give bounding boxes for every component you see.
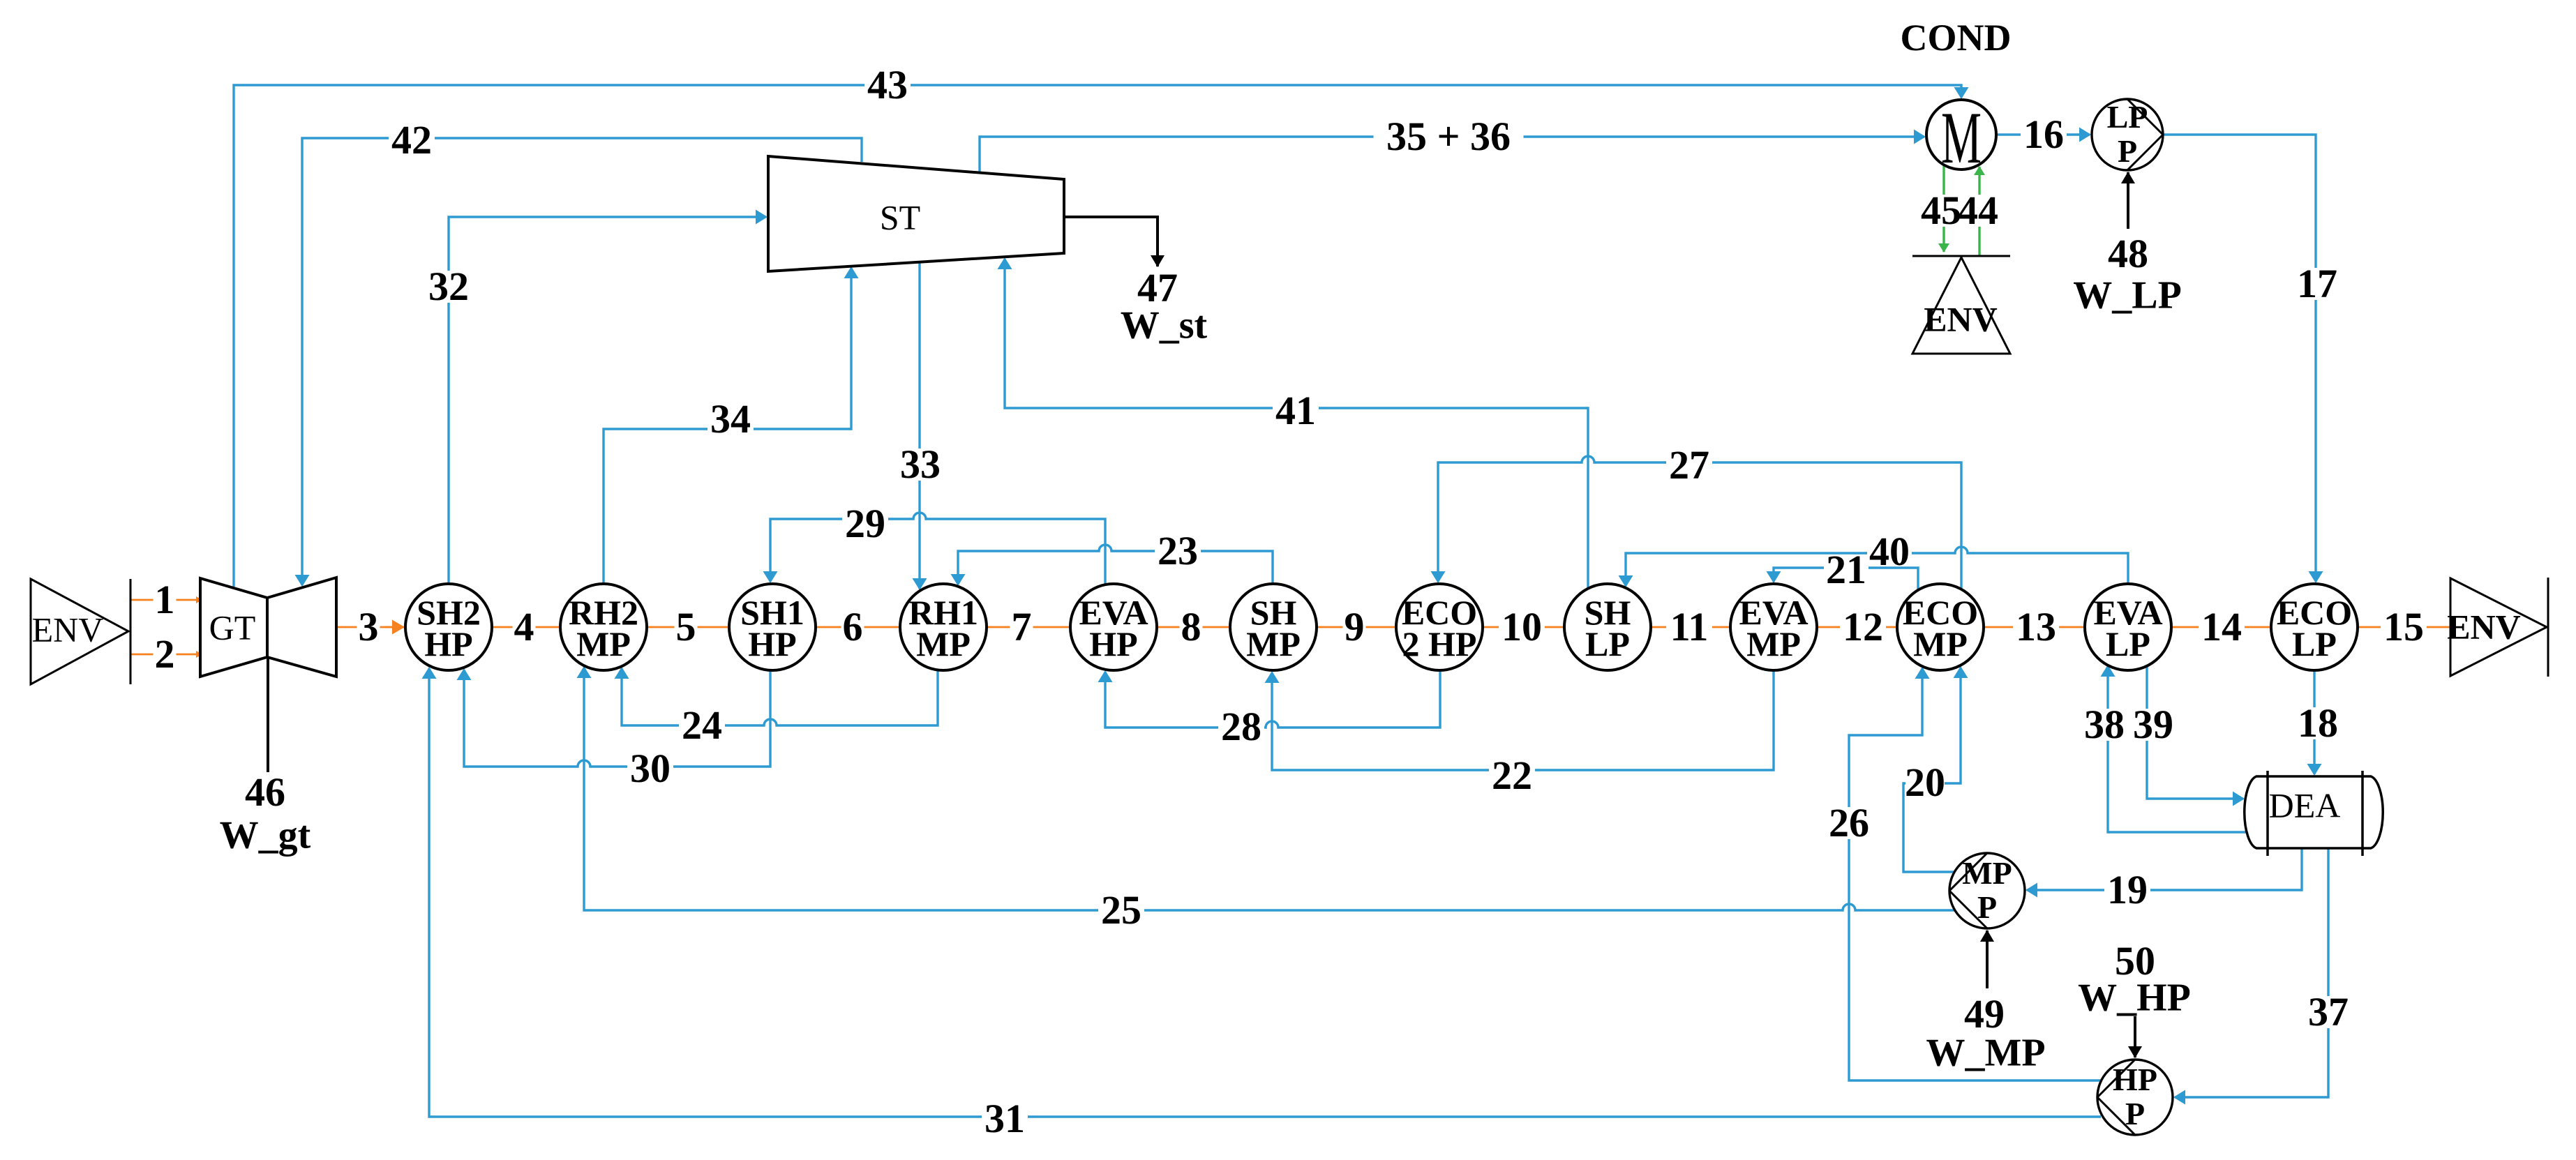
heat exchanger ECO MP — [1897, 584, 1984, 670]
ENV inlet triangle — [31, 579, 130, 684]
heat exchanger ECO LP — [2271, 584, 2358, 670]
svg-text:MP: MP — [1962, 855, 2012, 891]
svg-text:16: 16 — [2023, 112, 2064, 157]
svg-text:31: 31 — [984, 1096, 1025, 1141]
svg-text:34: 34 — [710, 396, 751, 442]
svg-text:M: M — [1941, 97, 1982, 179]
wire 41 (SH LP to ST) — [1005, 259, 1588, 589]
wire 32 (SH2 HP to ST) — [449, 217, 766, 586]
pump HP P — [2097, 1060, 2173, 1135]
svg-text:ENV: ENV — [32, 610, 104, 649]
wire 31 (HP P to SH2 HP) — [429, 668, 2101, 1117]
wire 27 (ECO MP to ECO 2 HP) — [1438, 456, 1961, 590]
svg-text:49: 49 — [1964, 991, 2005, 1037]
svg-text:W_st: W_st — [1121, 303, 1208, 347]
condenser COND — [1901, 17, 2012, 179]
svg-text:HP: HP — [2113, 1062, 2157, 1097]
svg-text:2 HP: 2 HP — [1402, 624, 1477, 663]
ENV condenser sink triangle — [1912, 256, 2010, 354]
wire 16 (COND to LP P) — [1998, 133, 2090, 135]
heat exchanger SH2 HP — [405, 584, 492, 670]
heat exchanger ECO 2 HP — [1396, 584, 1483, 670]
svg-text:1: 1 — [155, 577, 175, 622]
wire 18 (ECO LP to DEA) — [2313, 670, 2315, 774]
wire 26 (HP P to ECO MP) — [1849, 668, 2102, 1080]
svg-text:5: 5 — [676, 604, 696, 649]
svg-text:18: 18 — [2298, 700, 2338, 746]
ENV outlet triangle — [2447, 578, 2548, 677]
wire 39 (EVA LP to DEA) — [2147, 665, 2243, 799]
svg-text:LP: LP — [2106, 624, 2150, 663]
label 50 W_HP — [2078, 938, 2191, 1019]
wire 37 (DEA to HP P) — [2175, 848, 2328, 1097]
heat exchanger SH MP — [1230, 584, 1317, 670]
wire stream 3 arrow into SH2 HP — [385, 626, 403, 628]
svg-text:DEA: DEA — [2269, 786, 2341, 825]
svg-text:44: 44 — [1958, 188, 1998, 233]
label 47 W_st — [1121, 265, 1208, 347]
svg-text:45: 45 — [1921, 188, 1961, 233]
svg-text:7: 7 — [1012, 604, 1032, 649]
deaerator DEA — [2245, 771, 2383, 856]
svg-text:12: 12 — [1843, 604, 1883, 649]
heat exchanger SH LP — [1564, 584, 1651, 670]
svg-text:2: 2 — [155, 631, 175, 677]
svg-text:3: 3 — [359, 604, 379, 649]
svg-text:LP: LP — [2292, 624, 2337, 663]
svg-text:33: 33 — [900, 442, 941, 487]
svg-text:19: 19 — [2107, 867, 2148, 912]
svg-text:MP: MP — [1246, 624, 1301, 663]
svg-text:32: 32 — [428, 264, 469, 309]
wire 42 (ST to GT) — [302, 138, 862, 585]
steam turbine ST — [768, 156, 1064, 271]
wire 47 W_st (ST shaft out) — [1063, 217, 1158, 266]
svg-text:17: 17 — [2297, 261, 2337, 306]
svg-text:26: 26 — [1829, 800, 1869, 845]
svg-text:11: 11 — [1670, 604, 1709, 649]
svg-text:W_HP: W_HP — [2078, 976, 2191, 1019]
wire 22 (EVA MP to SH MP) — [1272, 670, 1774, 770]
pump LP P — [2092, 99, 2163, 170]
svg-text:25: 25 — [1101, 887, 1141, 933]
svg-text:20: 20 — [1905, 760, 1945, 805]
svg-text:23: 23 — [1158, 528, 1198, 573]
wire 19 (DEA to MP P) — [2027, 848, 2302, 890]
pump MP P — [1949, 853, 2025, 928]
wire 38 (DEA to EVA LP) — [2108, 666, 2246, 832]
wire 40 (EVA LP to SH LP) — [1626, 547, 2128, 586]
heat exchanger EVA MP — [1730, 584, 1817, 670]
svg-text:ST: ST — [880, 198, 920, 237]
wire stream 2 (ENV to GT fuel) — [131, 654, 202, 656]
svg-text:MP: MP — [1746, 624, 1801, 663]
svg-text:27: 27 — [1669, 442, 1709, 488]
label 48 W_LP — [2073, 231, 2182, 317]
svg-text:LP: LP — [2107, 99, 2148, 135]
svg-text:38: 38 — [2084, 702, 2125, 747]
svg-text:MP: MP — [576, 624, 631, 663]
svg-text:6: 6 — [843, 604, 863, 649]
svg-text:4: 4 — [514, 604, 534, 649]
wire 34 (RH2 MP to ST) — [604, 268, 851, 586]
heat exchanger RH1 MP — [900, 584, 987, 670]
svg-text:40: 40 — [1869, 529, 1910, 574]
svg-text:43: 43 — [867, 62, 908, 107]
svg-text:14: 14 — [2201, 604, 2242, 649]
wire 45 (COND to ENV) — [1942, 165, 1945, 252]
wire 17 (LP P to ECO LP) — [2163, 135, 2316, 582]
wire main flue-gas line streams 3-15 — [336, 626, 2450, 628]
svg-text:10: 10 — [1502, 604, 1542, 649]
wire 28 (ECO 2 HP to EVA HP) — [1105, 670, 1440, 728]
heat exchanger RH2 MP — [560, 584, 647, 670]
heat exchanger EVA LP — [2085, 584, 2171, 670]
wire 24 (RH1 MP to RH2 MP) — [622, 668, 938, 725]
wire 21 (ECO MP to EVA MP) — [1774, 568, 1918, 591]
svg-text:COND: COND — [1901, 17, 2012, 59]
svg-text:W_MP: W_MP — [1926, 1031, 2045, 1074]
svg-text:21: 21 — [1826, 547, 1866, 592]
wire 33 (ST to RH1 MP) — [918, 262, 920, 589]
svg-text:29: 29 — [845, 501, 885, 546]
svg-text:ENV: ENV — [1924, 300, 1998, 339]
heat exchanger SH1 HP — [729, 584, 816, 670]
svg-text:MP: MP — [916, 624, 971, 663]
svg-text:LP: LP — [1585, 624, 1630, 663]
svg-text:HP: HP — [748, 624, 796, 663]
wire 25 (MP P to RH2 MP) — [584, 668, 1954, 910]
svg-text:9: 9 — [1345, 604, 1365, 649]
gas turbine GT — [200, 578, 336, 677]
svg-text:13: 13 — [2016, 604, 2056, 649]
svg-text:24: 24 — [682, 702, 722, 748]
wire 44 (ENV to COND) — [1978, 167, 1980, 255]
heat exchanger EVA HP — [1070, 584, 1157, 670]
wire 50 W_HP into HP pump — [2134, 1016, 2136, 1057]
svg-text:HP: HP — [1089, 624, 1137, 663]
svg-text:W_gt: W_gt — [220, 813, 311, 857]
svg-text:W_LP: W_LP — [2073, 273, 2182, 317]
svg-text:37: 37 — [2308, 989, 2349, 1034]
svg-text:P: P — [2125, 1096, 2145, 1131]
svg-text:30: 30 — [630, 746, 671, 791]
svg-text:28: 28 — [1221, 704, 1261, 749]
svg-text:HP: HP — [424, 624, 472, 663]
svg-text:ENV: ENV — [2447, 608, 2521, 647]
wire 43 (GT to COND) — [234, 85, 1961, 587]
svg-text:41: 41 — [1275, 388, 1316, 433]
svg-text:15: 15 — [2383, 604, 2424, 649]
label 49 W_MP — [1926, 991, 2045, 1074]
wire stream 1 (ENV to GT air) — [131, 599, 202, 601]
svg-text:P: P — [1977, 889, 1997, 925]
svg-text:P: P — [2118, 133, 2137, 169]
wire 30 (SH1 HP to SH2 HP) — [464, 670, 770, 767]
wire GT shaft — [267, 657, 269, 772]
wire 35+36 (ST to COND) — [980, 137, 1924, 174]
wire 48 W_LP into LP pump — [2127, 172, 2129, 229]
svg-text:8: 8 — [1181, 604, 1201, 649]
wire 23 (SH MP to RH1 MP) — [958, 545, 1273, 585]
svg-text:GT: GT — [209, 608, 256, 647]
svg-text:48: 48 — [2108, 231, 2148, 276]
svg-text:22: 22 — [1492, 753, 1532, 798]
svg-text:42: 42 — [391, 117, 432, 163]
svg-text:35 + 36: 35 + 36 — [1386, 114, 1511, 159]
wire 49 W_MP into MP pump — [1986, 931, 1989, 988]
svg-text:39: 39 — [2133, 702, 2173, 747]
wire 20 (MP P to ECO MP) — [1903, 668, 1961, 872]
label 46 W_gt — [220, 769, 311, 857]
wire 29 (EVA HP to SH1 HP) — [770, 513, 1105, 585]
svg-text:MP: MP — [1913, 624, 1968, 663]
svg-text:46: 46 — [245, 769, 285, 815]
